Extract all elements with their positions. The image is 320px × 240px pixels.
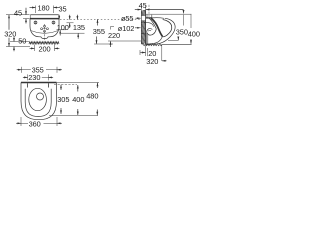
dim 305 <box>60 85 62 90</box>
body outline <box>21 85 57 120</box>
dim ø102 leader <box>135 27 141 29</box>
svg-text:320: 320 <box>4 30 16 39</box>
seat hole right <box>52 21 55 24</box>
bowl back wall <box>151 18 162 36</box>
dim 360 <box>20 117 22 126</box>
front outer face <box>146 18 175 45</box>
dim 480 <box>97 83 99 88</box>
rim crescent <box>162 20 172 37</box>
svg-text:305: 305 <box>57 95 69 104</box>
hinge dashed ext <box>54 84 77 86</box>
inlet pipe gap in wall <box>141 16 146 21</box>
dim 355 <box>97 19 99 25</box>
svg-text:45: 45 <box>14 8 22 17</box>
svg-text:400: 400 <box>188 30 200 39</box>
inlet pipe through wall <box>141 14 145 16</box>
outlet pipe through wall <box>141 22 148 24</box>
svg-text:100: 100 <box>57 23 69 32</box>
dim 45 left <box>23 14 30 16</box>
center dashed line <box>44 24 46 41</box>
dim 320 left <box>8 15 10 30</box>
wall bottom squiggle <box>142 44 191 46</box>
dim 355 <box>21 67 23 73</box>
rim top edge <box>152 17 164 20</box>
svg-text:320: 320 <box>146 57 158 66</box>
svg-text:355: 355 <box>93 27 105 36</box>
back top light line <box>31 14 59 16</box>
svg-text:35: 35 <box>59 5 67 14</box>
underside inner line <box>146 37 163 45</box>
right side dims of view A <box>60 18 141 20</box>
wall ext lines up <box>140 5 142 10</box>
inner bottom edge arc <box>31 31 59 34</box>
seat outline <box>25 89 51 117</box>
main top thick line <box>30 18 59 20</box>
svg-text:400: 400 <box>72 95 84 104</box>
bowl oval <box>29 88 47 110</box>
inlet stub verticals <box>146 15 148 18</box>
dim 320 bottom <box>161 45 163 61</box>
outlet verticals <box>145 33 147 44</box>
dim 180 <box>35 6 37 14</box>
body outline <box>30 19 59 39</box>
trapway curl <box>147 28 157 35</box>
ext lines right <box>57 81 99 83</box>
seat hinges <box>27 83 29 87</box>
dim 400 <box>77 85 79 92</box>
toilet back top thin line / 400 ext <box>146 13 192 15</box>
dim 20 bottom <box>139 50 141 55</box>
dim 350/400 right <box>183 10 185 14</box>
svg-text:360: 360 <box>29 119 41 128</box>
svg-text:ø102: ø102 <box>118 24 134 33</box>
svg-text:220: 220 <box>108 31 120 40</box>
dim 220 <box>111 27 115 30</box>
wall hatch <box>141 10 145 44</box>
seat hole left <box>34 21 37 24</box>
rim side ticks <box>29 15 31 19</box>
svg-text:200: 200 <box>39 44 51 53</box>
svg-text:ø55: ø55 <box>121 14 133 23</box>
dim 50 left <box>13 37 15 42</box>
wall face edge <box>145 11 147 45</box>
svg-text:480: 480 <box>86 92 98 101</box>
wavy break strip <box>29 42 59 44</box>
center hole pattern <box>44 25 46 27</box>
svg-text:45: 45 <box>139 1 147 10</box>
svg-text:50: 50 <box>18 37 26 46</box>
inlet center dashed <box>148 5 150 17</box>
svg-text:350: 350 <box>176 28 188 37</box>
svg-text:180: 180 <box>38 4 50 13</box>
dim 45 top <box>135 9 141 11</box>
dim 200 bottom <box>34 45 36 52</box>
dim ø55 leader <box>136 17 141 19</box>
wall back edge <box>140 11 142 45</box>
small circle <box>37 93 44 100</box>
350 bottom ref line <box>168 39 179 41</box>
dim 230 <box>27 74 29 80</box>
body top thick line <box>21 82 57 84</box>
svg-text:230: 230 <box>28 73 40 82</box>
svg-text:135: 135 <box>73 23 85 32</box>
top surface thick <box>146 17 152 19</box>
